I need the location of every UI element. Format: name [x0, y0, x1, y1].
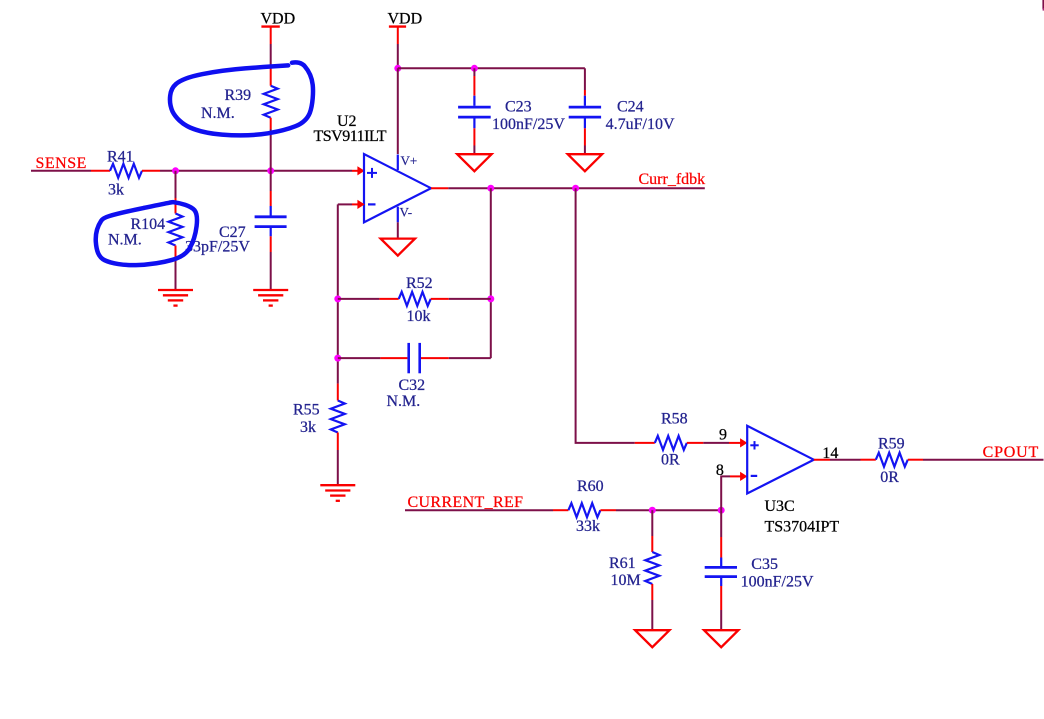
resistor R104 (vertical) [169, 214, 183, 246]
ground (earth) under R104 [158, 290, 193, 306]
resistor R55 pin stub bottom [337, 433, 339, 451]
wire node B down to C27 [270, 171, 272, 191]
wire C35 to ground [720, 610, 722, 630]
svg-text:C24: C24 [617, 99, 644, 116]
svg-text:3k: 3k [108, 182, 124, 199]
wire node K up to U3C pin 8 [721, 476, 730, 510]
capacitor C23 pin stub top [473, 76, 475, 96]
wire node F down to R58 row [576, 188, 635, 443]
svg-text:R59: R59 [878, 436, 905, 453]
svg-text:100nF/25V: 100nF/25V [741, 574, 814, 591]
wire R55 to ground [337, 450, 339, 485]
svg-text:V-: V- [400, 205, 413, 220]
wire C24 to ground [584, 146, 586, 155]
svg-text:4.7uF/10V: 4.7uF/10V [606, 116, 675, 133]
op-amp U2 V+ pin line [397, 155, 399, 171]
svg-text:3k: 3k [300, 419, 316, 436]
wire C32 left [338, 357, 381, 359]
wire C27 to ground [270, 252, 272, 290]
capacitor C24 pin stub bottom [584, 128, 586, 145]
svg-text:C35: C35 [751, 556, 778, 573]
annotation ink circle around R39 [170, 62, 313, 135]
comparator U3C plus sign [750, 441, 758, 449]
junction node D (C23 tap) [471, 65, 478, 72]
pin stub U3C + input [729, 442, 741, 444]
svg-text:100nF/25V: 100nF/25V [492, 116, 565, 133]
op-amp U2 plus sign [367, 168, 377, 178]
pin stub opamp U2 + input [352, 170, 358, 172]
capacitor C35 pin stub bottom [720, 586, 722, 610]
ground (triangle) under C23 [457, 154, 491, 171]
annotation ink circle around R104 [96, 202, 197, 265]
resistor R58 [655, 436, 687, 450]
junction fragment top right [1043, 8, 1044, 10]
resistor R52 [399, 292, 431, 306]
svg-text:R39: R39 [225, 87, 252, 104]
capacitor C27 pin stub bottom [270, 236, 272, 252]
op-amp U2 body [364, 154, 431, 222]
op-amp U2 minus sign [368, 203, 376, 205]
capacitor C32 [409, 343, 420, 373]
svg-text:N.M.: N.M. [387, 393, 421, 410]
capacitor C35 pin stub top [720, 537, 722, 558]
resistor R61 pin stub bottom [651, 584, 653, 600]
svg-text:N.M.: N.M. [201, 105, 235, 122]
resistor R1 pin stub left (R41) [91, 170, 110, 172]
wire R41 to node A [160, 170, 271, 172]
arrow into U3C - input [740, 472, 747, 481]
wire VDD rail to C24 [398, 67, 585, 69]
wire C32 right up to node E line [449, 357, 491, 359]
junction node K (C35/pin8 tap) [718, 507, 725, 514]
capacitor C23 wire from node D [473, 68, 475, 76]
svg-text:8: 8 [716, 462, 724, 479]
comparator U3C body [747, 426, 814, 494]
resistor R61 wire from node J [651, 510, 653, 536]
svg-text:VDD: VDD [388, 11, 423, 28]
wire C24 drop from rail [584, 68, 586, 90]
wire node E down feedback right side [490, 188, 492, 358]
capacitor C23 [458, 96, 491, 129]
svg-text:R60: R60 [577, 478, 604, 495]
junction node C (VDD rail) [394, 65, 401, 72]
svg-text:Curr_fdbk: Curr_fdbk [639, 171, 706, 188]
ground (triangle) under C35 [704, 630, 738, 647]
svg-text:SENSE: SENSE [36, 155, 87, 172]
junction node A (R104 tap) [172, 167, 179, 174]
svg-text:C32: C32 [399, 377, 426, 394]
resistor R59 [876, 453, 908, 467]
junction node G (R52 right) [487, 295, 494, 302]
junction node F (comparator branch) [572, 185, 579, 192]
wire VDD2 down to node C [397, 44, 399, 68]
resistor R58 pin stub left [635, 442, 655, 444]
resistor R60 [568, 503, 600, 517]
wire node C down to U2 V+ [397, 68, 399, 154]
resistor R59 pin stub right [908, 459, 923, 461]
wire node A down to R104 [175, 171, 177, 198]
comparator U3C minus sign [751, 475, 758, 477]
resistor R52 pin stub right [431, 298, 449, 300]
ground (triangle) under R61 [635, 630, 669, 647]
svg-text:10M: 10M [611, 572, 641, 589]
capacitor C35 wire from node K [720, 510, 722, 537]
wire R61 to ground [651, 600, 653, 630]
ground (triangle) under U2 V- [381, 239, 415, 256]
svg-text:TS3704IPT: TS3704IPT [765, 519, 840, 536]
wire fragment top right corner [1042, 0, 1044, 9]
resistor R58 pin stub right [687, 442, 704, 444]
wire VDD1 to R39 [270, 44, 272, 66]
resistor R60 pin stub right [600, 509, 616, 511]
svg-text:VDD: VDD [261, 11, 296, 28]
wire SENSE to R41 [31, 170, 91, 172]
resistor R41 pin stub right [142, 170, 160, 172]
svg-text:N.M.: N.M. [108, 232, 142, 249]
op-amp U2 V- pin line [397, 207, 399, 223]
resistor R59 pin stub left [861, 459, 876, 461]
svg-text:C23: C23 [505, 99, 532, 116]
resistor R61 (vertical) [645, 552, 659, 584]
svg-text:CURRENT_REF: CURRENT_REF [408, 494, 524, 511]
svg-text:R41: R41 [107, 149, 134, 166]
wire R59 to CPOUT [923, 459, 1044, 461]
svg-text:10k: 10k [407, 308, 431, 325]
svg-text:R55: R55 [293, 402, 320, 419]
svg-text:33k: 33k [576, 518, 600, 535]
capacitor C27 pin stub top [270, 191, 272, 206]
ground (triangle) under C24 [568, 154, 602, 171]
resistor R104 pin stub top [175, 198, 177, 214]
ground (earth) under C27 [253, 290, 288, 306]
junction node J (R61 tap) [649, 507, 656, 514]
svg-text:R61: R61 [609, 555, 636, 572]
wire U2 output to Curr_fdbk [448, 187, 705, 189]
wire R58 to U3C pin 9 [703, 442, 729, 444]
junction node E (feedback tap) [487, 185, 494, 192]
junction node H (R52 left) [334, 295, 341, 302]
wire U2 V- to ground [397, 222, 399, 238]
resistor R104 pin stub bottom [175, 246, 177, 262]
wire R60 to C35 node [616, 509, 721, 511]
resistor R39 pin stub top [270, 66, 272, 86]
op-amp U2 output pin stub [431, 187, 448, 189]
resistor R60 pin stub left [553, 509, 568, 511]
resistor R41 [110, 164, 142, 178]
wire node B to opamp [271, 170, 352, 172]
capacitor C35 [705, 558, 737, 587]
svg-text:U3C: U3C [765, 498, 795, 515]
power VDD symbol 2 [389, 27, 406, 44]
svg-text:0R: 0R [880, 469, 899, 486]
resistor R52 pin stub left [379, 298, 398, 300]
svg-text:R104: R104 [131, 216, 166, 233]
pin stub opamp U2 - input [352, 203, 358, 205]
svg-text:CPOUT: CPOUT [983, 444, 1039, 461]
ground (earth) under R55 [320, 485, 355, 501]
wire CURRENT_REF to R60 [405, 509, 553, 511]
wire R104 to ground [175, 261, 177, 290]
svg-text:TSV911ILT: TSV911ILT [314, 128, 387, 145]
wire pin 14 to R59 [830, 459, 861, 461]
capacitor C24 [569, 96, 601, 129]
capacitor C27 [255, 206, 287, 236]
wire R52 left [338, 298, 380, 300]
resistor R55 pin stub top [337, 384, 339, 401]
resistor R61 pin stub top [651, 536, 653, 552]
wire feedback left vertical [337, 204, 339, 383]
arrow into U2 - input [357, 200, 364, 209]
arrow into U3C + input [740, 438, 747, 447]
wire C23 to ground [473, 146, 475, 155]
svg-text:0R: 0R [661, 452, 680, 469]
svg-text:R52: R52 [406, 275, 433, 292]
comparator U3C output pin stub [814, 459, 830, 461]
capacitor C24 pin stub top [584, 90, 586, 96]
resistor R39 pin stub bottom [270, 118, 272, 129]
junction node I (C32 left) [334, 355, 341, 362]
svg-text:V+: V+ [401, 153, 418, 168]
power VDD symbol 1 [261, 27, 279, 44]
svg-text:R58: R58 [661, 411, 688, 428]
svg-text:9: 9 [719, 426, 727, 443]
pin stub U3C - input [730, 475, 741, 477]
wire R39 to node B [270, 129, 272, 171]
wire U2 minus input horizontal [338, 203, 352, 205]
wire R52 right [449, 298, 491, 300]
resistor R55 (vertical) [331, 401, 345, 433]
junction node B (C27/R39 tap) [267, 167, 274, 174]
capacitor C32 pin stub left [380, 357, 407, 359]
capacitor C32 pin stub right [421, 357, 449, 359]
capacitor C23 pin stub bottom [473, 128, 475, 145]
arrow into U2 + input [357, 166, 364, 175]
resistor R39 (vertical) [264, 86, 278, 118]
